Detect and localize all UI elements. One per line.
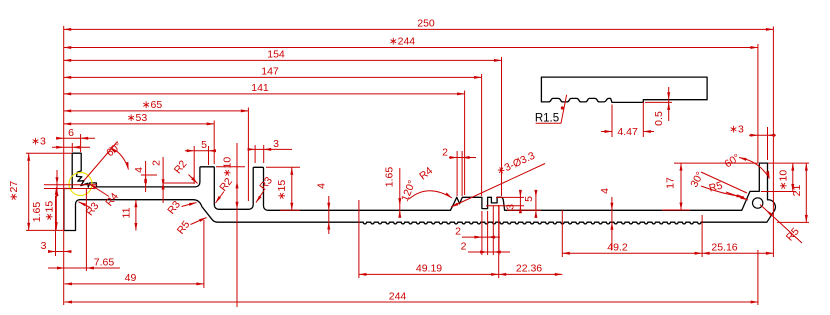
svg-text:7.65: 7.65 <box>94 257 115 269</box>
svg-text:244: 244 <box>389 290 407 302</box>
dim 2 port wall <box>468 251 510 253</box>
detail view of serration <box>541 77 707 102</box>
svg-text:147: 147 <box>261 66 279 78</box>
hole O3.3 right block <box>753 198 763 208</box>
dim 22.36 <box>499 273 563 275</box>
dim 2 hook <box>162 157 164 203</box>
label *3-O3.3 <box>451 164 545 208</box>
svg-text:∗244: ∗244 <box>389 36 415 48</box>
dim *15 mid <box>291 167 293 210</box>
dim 141 <box>64 93 465 95</box>
svg-text:250: 250 <box>417 18 435 30</box>
dim 6 <box>56 137 95 139</box>
dim 154 <box>64 59 502 61</box>
60 deg angle right <box>739 158 770 179</box>
label R4 hook <box>90 184 110 197</box>
svg-text:∗15: ∗15 <box>44 201 56 222</box>
svg-text:2: 2 <box>455 226 461 238</box>
dim 49.19 <box>359 273 499 275</box>
svg-text:4: 4 <box>133 167 145 173</box>
svg-text:154: 154 <box>267 49 285 61</box>
dim *27 <box>28 153 30 230</box>
svg-text:3: 3 <box>273 138 279 150</box>
dim 49 <box>65 283 204 285</box>
dim 3 rib <box>248 148 292 150</box>
svg-text:141: 141 <box>251 82 269 94</box>
svg-text:49.19: 49.19 <box>416 263 442 275</box>
dim 250 overall <box>64 28 774 30</box>
dim 25.16 <box>702 252 773 254</box>
svg-text:4: 4 <box>316 183 328 189</box>
dim 244 <box>65 301 759 303</box>
dim 3 bottom-left <box>48 251 71 253</box>
dim *10 mid <box>236 143 238 307</box>
dim *15 left <box>55 187 57 229</box>
svg-text:0.5: 0.5 <box>653 111 665 126</box>
dim 0.5 <box>645 101 672 103</box>
dim 1.65 mid <box>399 168 401 215</box>
label R3 a <box>256 191 264 203</box>
dim *53 <box>64 123 215 125</box>
120 deg angle <box>409 191 452 199</box>
yellow highlight circle <box>69 173 92 196</box>
svg-text:∗3: ∗3 <box>729 124 744 136</box>
label R2 b <box>216 192 225 204</box>
dim 11 <box>135 200 137 231</box>
svg-text:3: 3 <box>41 240 47 252</box>
dim *65 <box>64 110 249 112</box>
dim 7.65 <box>48 267 120 269</box>
dim 21 <box>805 163 807 222</box>
svg-text:6: 6 <box>68 127 74 139</box>
extension lines <box>63 26 65 305</box>
dim 2 port top <box>449 157 476 159</box>
svg-text:49: 49 <box>125 272 137 284</box>
svg-text:4.47: 4.47 <box>617 126 638 138</box>
label R5 undercut <box>191 218 207 225</box>
dim 5 port <box>535 190 537 218</box>
svg-text:5: 5 <box>523 196 535 202</box>
svg-text:5: 5 <box>201 139 207 151</box>
svg-text:∗3: ∗3 <box>31 136 46 148</box>
dim 5 rib <box>185 150 216 152</box>
svg-text:22.36: 22.36 <box>516 263 542 275</box>
svg-text:21: 21 <box>791 185 803 197</box>
svg-text:∗27: ∗27 <box>8 181 20 202</box>
svg-text:∗53: ∗53 <box>127 112 148 124</box>
svg-text:2: 2 <box>151 160 163 166</box>
label R5 mid-right <box>726 192 748 200</box>
profile outline <box>64 153 775 230</box>
dim 4 left web <box>328 196 330 234</box>
label R3 undercut <box>79 202 91 208</box>
svg-text:17: 17 <box>665 177 677 189</box>
svg-text:∗15: ∗15 <box>276 180 288 201</box>
svg-text:4: 4 <box>599 188 611 194</box>
svg-text:∗10: ∗10 <box>778 170 790 191</box>
dim 147 <box>64 76 482 78</box>
dim *3 right top <box>749 134 776 136</box>
30 deg angle <box>701 172 747 193</box>
svg-text:∗10: ∗10 <box>222 157 234 178</box>
svg-text:11: 11 <box>121 207 133 218</box>
svg-text:R1.5: R1.5 <box>535 112 559 124</box>
svg-text:3: 3 <box>505 204 517 210</box>
svg-text:1.65: 1.65 <box>31 202 43 223</box>
label R5 bottom right <box>760 205 802 244</box>
svg-text:49.2: 49.2 <box>607 242 628 254</box>
label R2 a <box>189 175 198 184</box>
dim *244 <box>64 47 758 49</box>
svg-text:1.65: 1.65 <box>384 167 396 188</box>
dim 3 port <box>519 190 521 213</box>
svg-text:2: 2 <box>461 241 467 253</box>
dim 4.47 <box>611 105 613 138</box>
dim 4 right web <box>611 197 613 250</box>
dim *10 right <box>792 163 794 191</box>
dim 1.65 left <box>56 170 58 197</box>
svg-text:∗65: ∗65 <box>142 99 163 111</box>
svg-text:25.16: 25.16 <box>711 242 737 254</box>
dim 17 <box>680 163 682 210</box>
dim 49.2 <box>562 252 702 254</box>
dim 2 port slot <box>462 236 500 238</box>
label R3 undercut right <box>182 203 197 207</box>
dim *3 left <box>52 146 90 148</box>
60 deg angle left <box>84 142 118 181</box>
svg-text:2: 2 <box>442 146 448 158</box>
dim 4 hook <box>145 161 147 192</box>
